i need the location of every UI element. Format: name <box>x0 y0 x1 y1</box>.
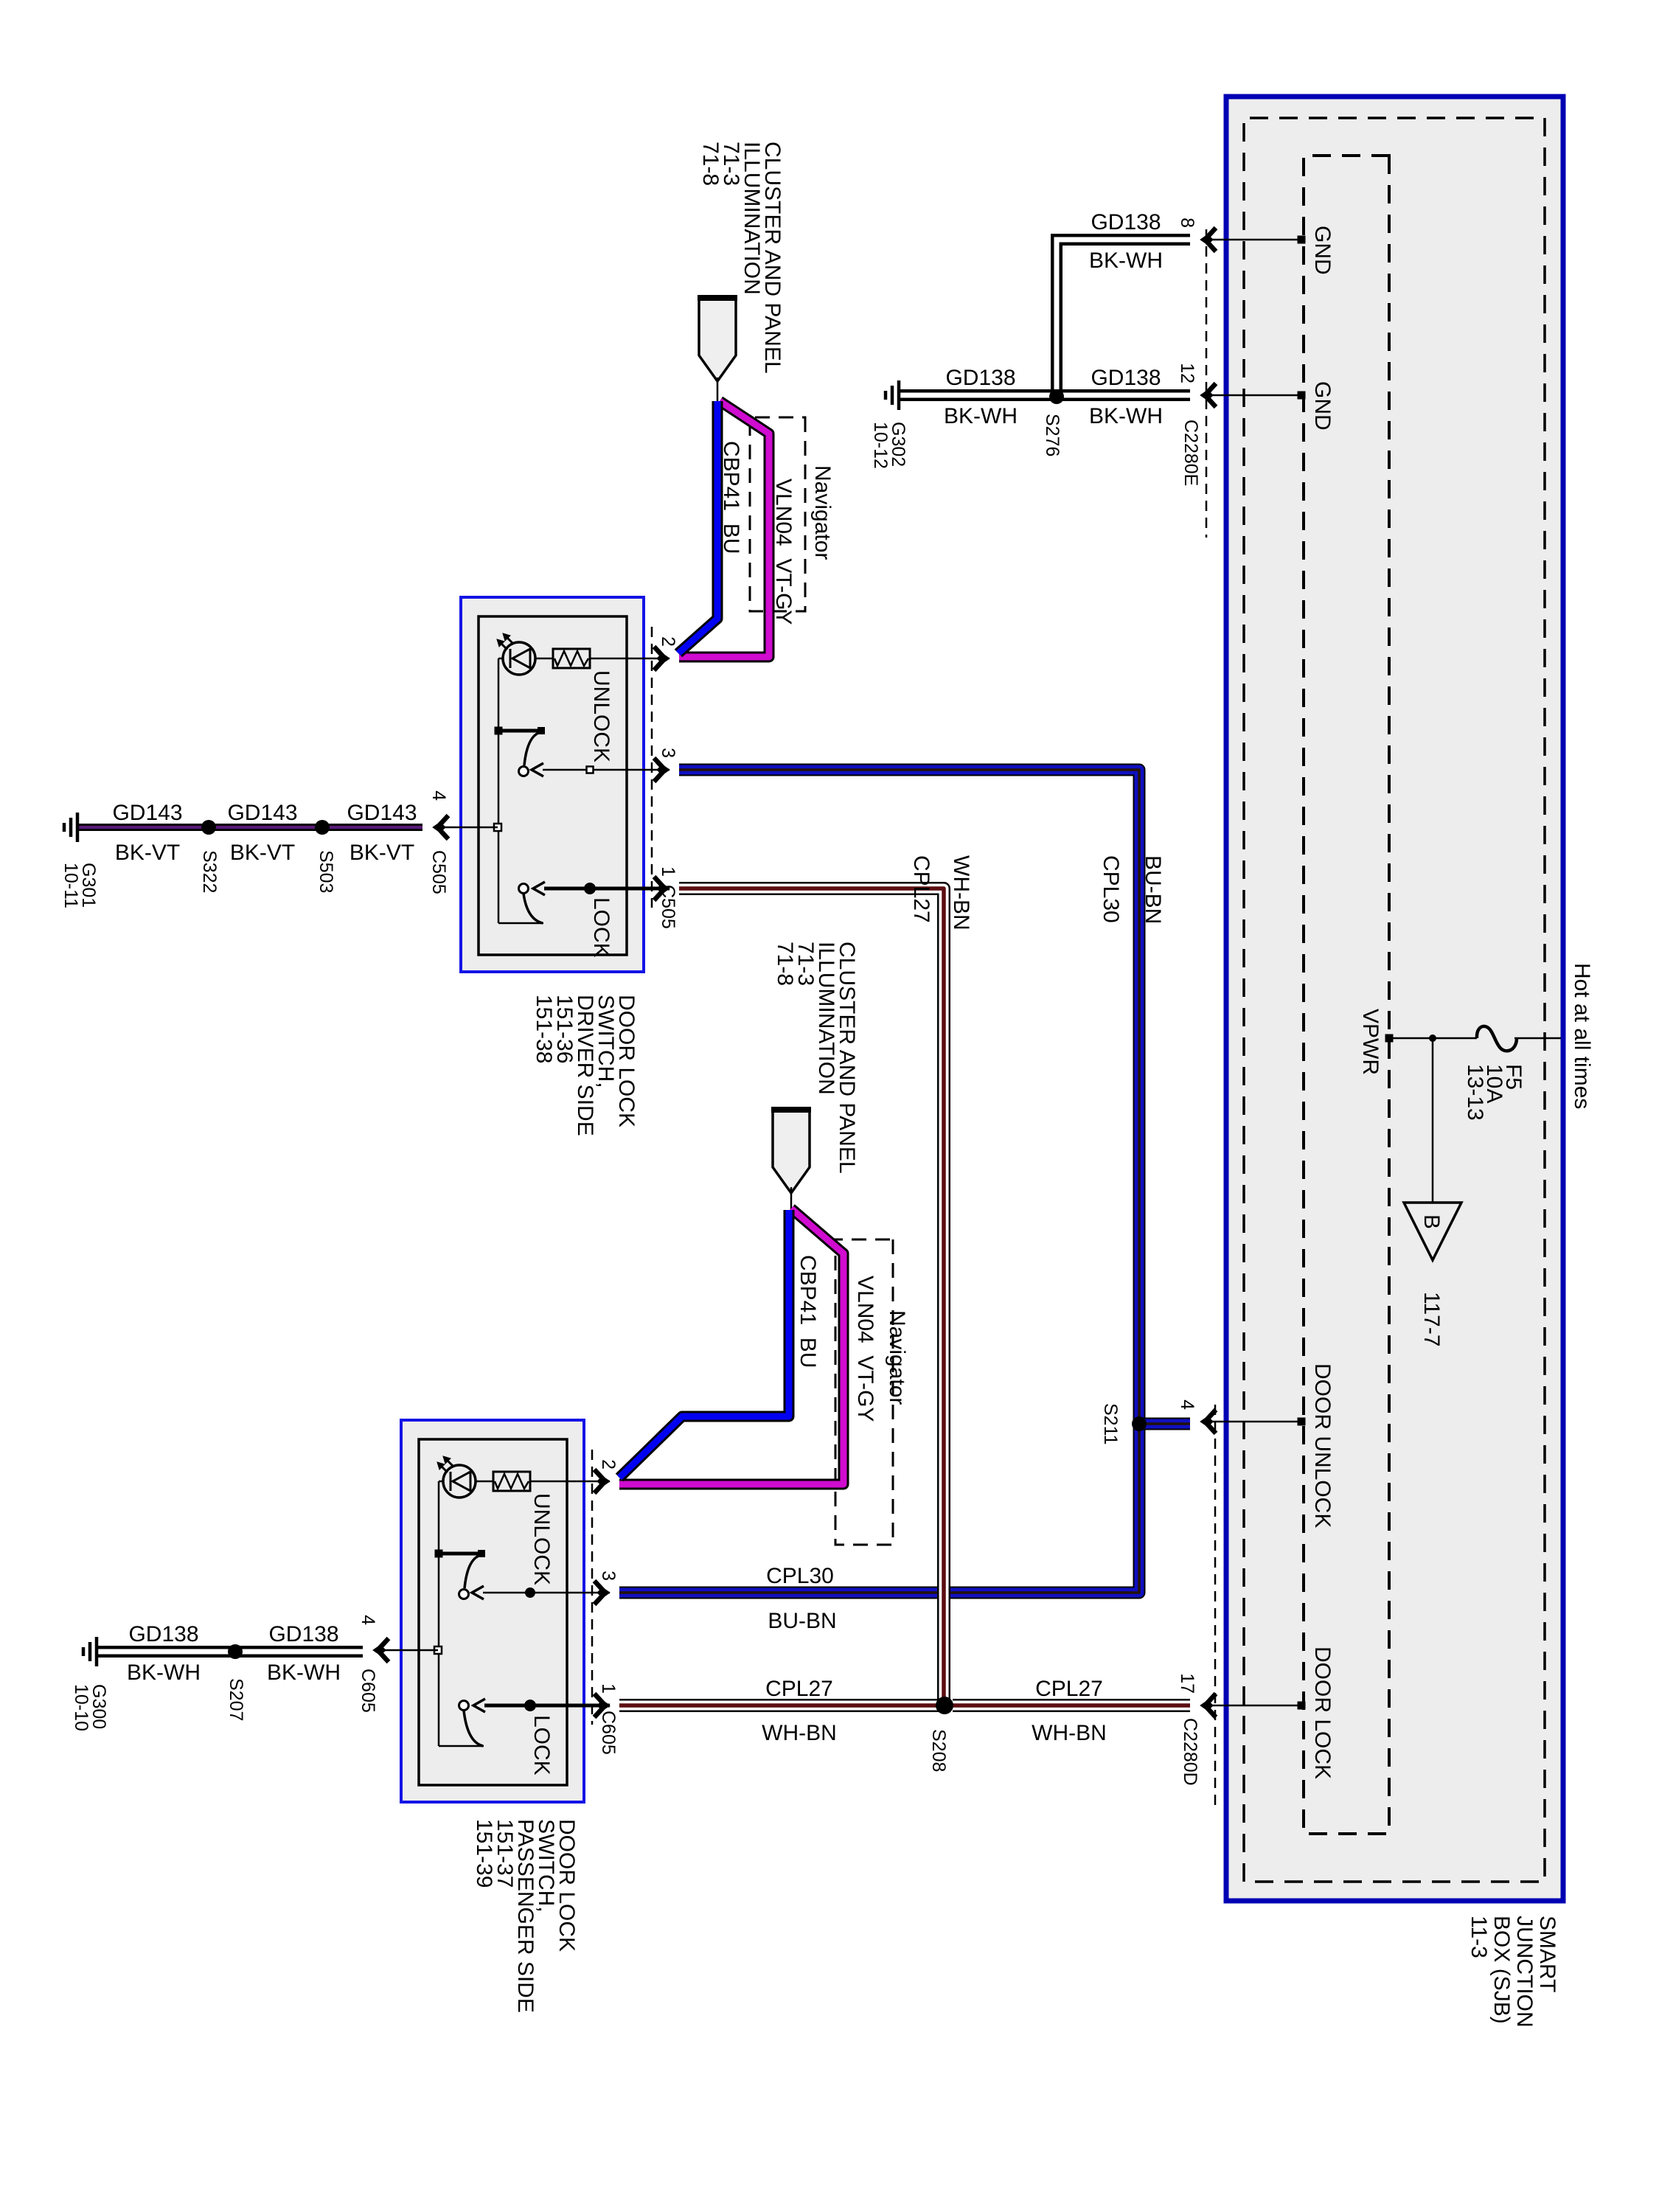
svg-text:10-11: 10-11 <box>60 863 81 908</box>
svg-text:Navigator: Navigator <box>810 465 835 560</box>
svg-text:BK-VT: BK-VT <box>230 841 295 865</box>
svg-text:C505: C505 <box>428 850 449 894</box>
svg-text:12: 12 <box>1177 363 1197 383</box>
svg-text:C605: C605 <box>358 1669 378 1713</box>
svg-text:GD138: GD138 <box>1091 366 1161 390</box>
svg-text:C2280E: C2280E <box>1180 420 1201 486</box>
svg-text:10-10: 10-10 <box>71 1684 91 1731</box>
svg-text:CPL27: CPL27 <box>1035 1677 1103 1701</box>
svg-text:Hot at all times: Hot at all times <box>1570 963 1594 1109</box>
svg-text:S207: S207 <box>226 1678 246 1721</box>
svg-text:BK-VT: BK-VT <box>349 841 414 865</box>
svg-text:GD143: GD143 <box>112 801 182 825</box>
svg-text:S503: S503 <box>316 850 336 893</box>
svg-text:17: 17 <box>1177 1673 1197 1694</box>
svg-text:S208: S208 <box>928 1729 949 1772</box>
svg-text:C505: C505 <box>658 885 678 929</box>
svg-text:3: 3 <box>598 1571 619 1581</box>
svg-text:UNLOCK: UNLOCK <box>529 1493 554 1585</box>
svg-text:BK-WH: BK-WH <box>1089 248 1163 273</box>
svg-text:VLN04 VT-GY: VLN04 VT-GY <box>853 1276 877 1422</box>
svg-text:DOOR LOCK: DOOR LOCK <box>1310 1646 1335 1779</box>
svg-text:10-12: 10-12 <box>870 422 891 469</box>
svg-text:GD138: GD138 <box>1091 210 1161 234</box>
svg-text:BK-WH: BK-WH <box>127 1660 201 1685</box>
svg-text:151-38: 151-38 <box>532 995 556 1063</box>
svg-text:BU-BN: BU-BN <box>768 1609 836 1633</box>
svg-text:WH-BN: WH-BN <box>762 1721 837 1745</box>
svg-text:BK-WH: BK-WH <box>267 1660 341 1685</box>
svg-text:2: 2 <box>658 636 678 647</box>
svg-text:GND: GND <box>1310 381 1335 431</box>
svg-text:CPL27: CPL27 <box>765 1677 833 1701</box>
svg-text:SMART: SMART <box>1535 1916 1559 1992</box>
svg-text:GD138: GD138 <box>128 1622 198 1646</box>
svg-text:BK-WH: BK-WH <box>944 404 1018 428</box>
svg-text:S276: S276 <box>1042 414 1062 456</box>
svg-text:4: 4 <box>358 1615 378 1625</box>
svg-text:4: 4 <box>428 790 449 801</box>
svg-text:GD143: GD143 <box>347 801 417 825</box>
svg-text:BU-BN: BU-BN <box>1141 855 1165 924</box>
svg-text:2: 2 <box>598 1459 619 1470</box>
svg-text:UNLOCK: UNLOCK <box>589 670 613 762</box>
svg-text:Navigator: Navigator <box>885 1310 909 1405</box>
svg-text:GND: GND <box>1310 226 1335 275</box>
svg-text:WH-BN: WH-BN <box>949 855 973 931</box>
svg-text:S322: S322 <box>199 850 220 893</box>
svg-text:VPWR: VPWR <box>1358 1009 1382 1075</box>
svg-text:151-39: 151-39 <box>472 1819 496 1888</box>
svg-text:CPL30: CPL30 <box>1099 855 1123 923</box>
svg-text:S211: S211 <box>1100 1403 1121 1445</box>
svg-text:DOOR UNLOCK: DOOR UNLOCK <box>1310 1363 1335 1528</box>
svg-text:C605: C605 <box>598 1711 619 1755</box>
svg-text:1: 1 <box>658 866 678 877</box>
svg-text:13-13: 13-13 <box>1463 1064 1487 1121</box>
svg-text:VLN04 VT-GY: VLN04 VT-GY <box>771 479 796 625</box>
svg-text:GD138: GD138 <box>945 366 1015 390</box>
svg-text:1: 1 <box>598 1683 619 1694</box>
svg-text:8: 8 <box>1177 218 1197 228</box>
svg-text:JUNCTION: JUNCTION <box>1512 1916 1537 2028</box>
svg-text:GD143: GD143 <box>227 801 297 825</box>
svg-text:71-8: 71-8 <box>773 942 797 986</box>
svg-text:CBP41 BU: CBP41 BU <box>796 1255 820 1368</box>
svg-text:C2280D: C2280D <box>1180 1718 1200 1786</box>
svg-text:B: B <box>1419 1214 1444 1229</box>
svg-text:LOCK: LOCK <box>589 897 613 958</box>
svg-text:71-8: 71-8 <box>698 142 723 186</box>
svg-text:WH-BN: WH-BN <box>1032 1721 1107 1745</box>
svg-text:CPL27: CPL27 <box>909 855 933 923</box>
svg-text:BK-VT: BK-VT <box>115 841 180 865</box>
svg-text:11-3: 11-3 <box>1467 1916 1491 1958</box>
svg-text:3: 3 <box>658 748 678 758</box>
svg-text:BK-WH: BK-WH <box>1089 404 1163 428</box>
svg-text:CPL30: CPL30 <box>766 1564 834 1588</box>
svg-text:117-7: 117-7 <box>1419 1292 1444 1347</box>
svg-text:GD138: GD138 <box>268 1622 338 1646</box>
svg-text:LOCK: LOCK <box>529 1715 554 1775</box>
svg-text:4: 4 <box>1177 1399 1197 1410</box>
svg-text:BOX (SJB): BOX (SJB) <box>1489 1916 1514 2024</box>
